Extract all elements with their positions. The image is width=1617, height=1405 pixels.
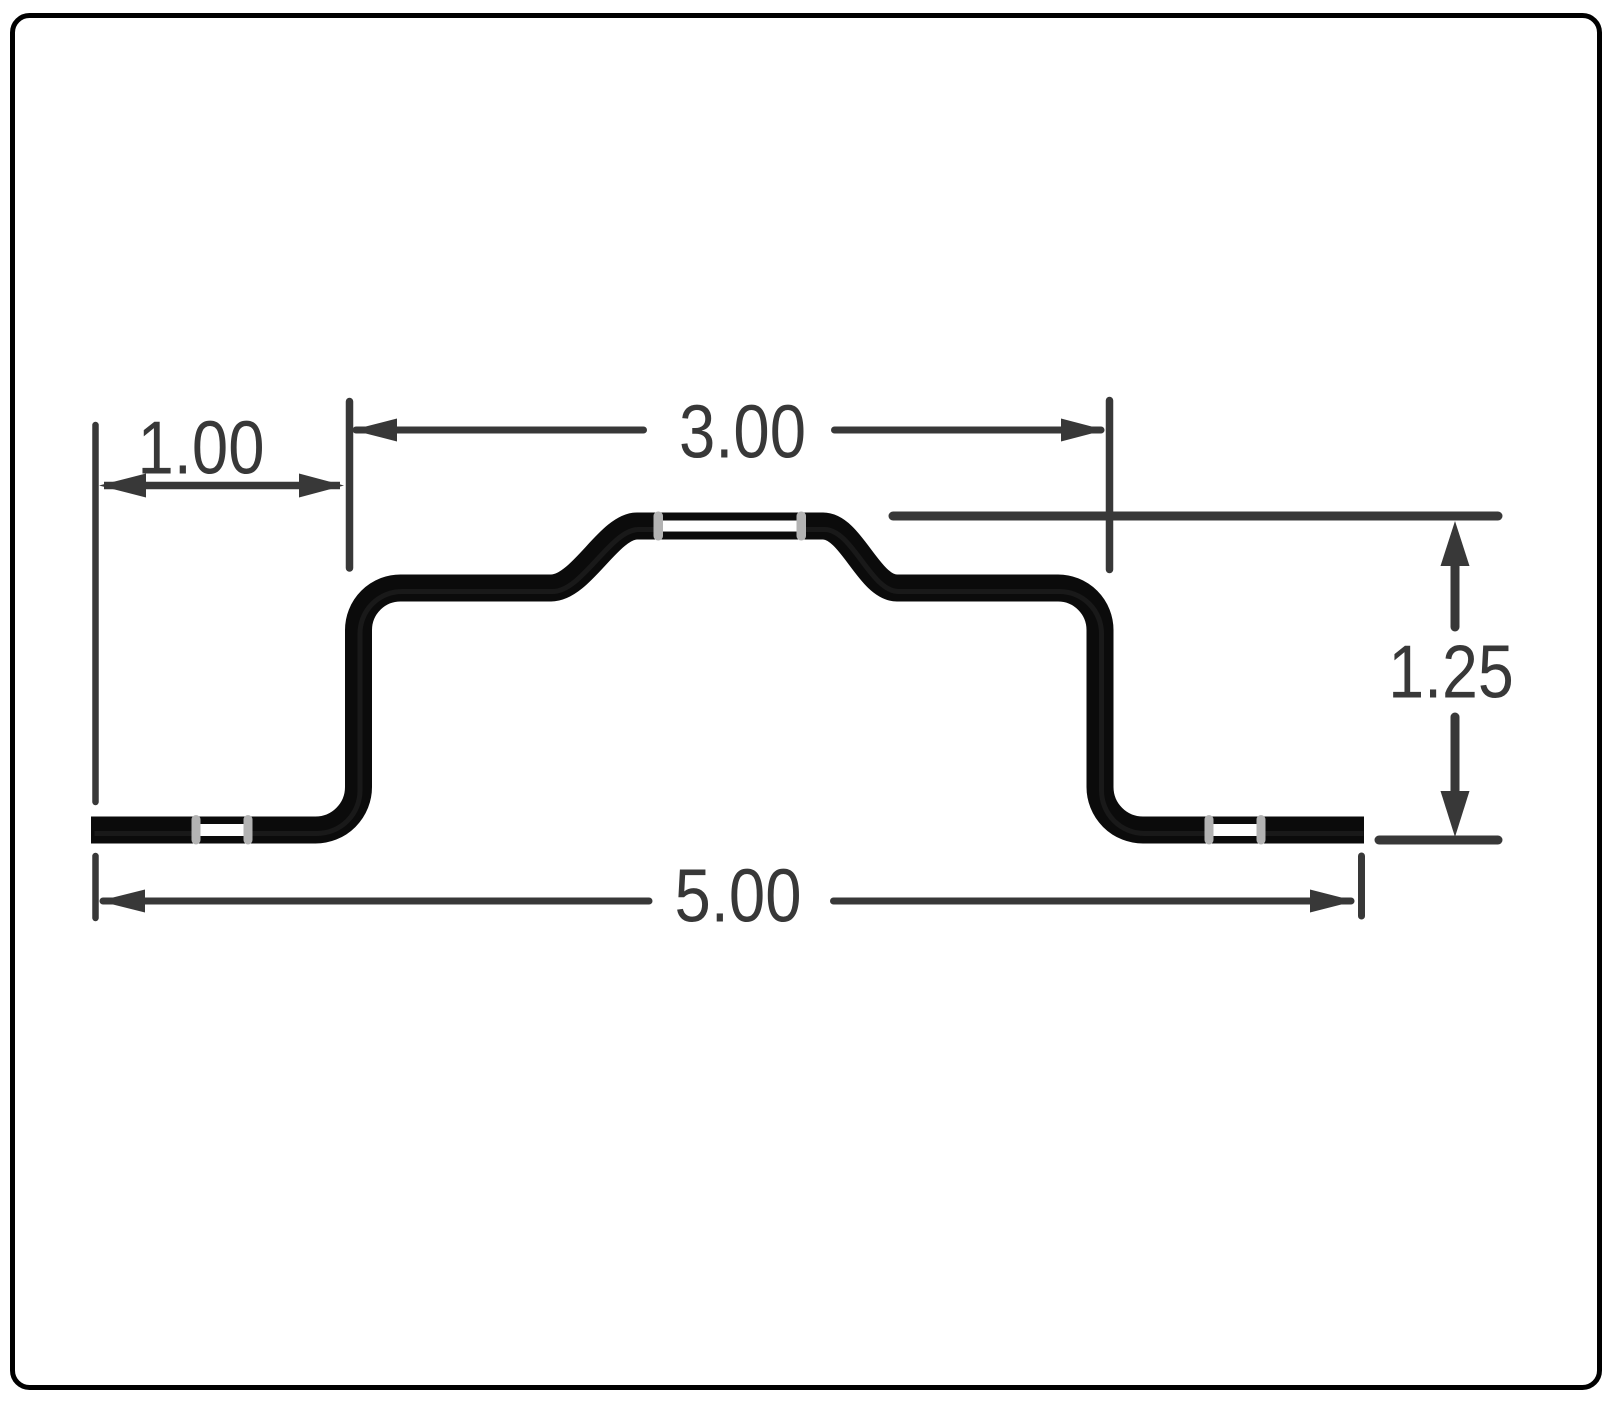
- svg-text:1.25: 1.25: [1388, 630, 1514, 714]
- svg-text:5.00: 5.00: [675, 853, 802, 937]
- svg-text:3.00: 3.00: [679, 389, 806, 473]
- svg-text:1.00: 1.00: [138, 405, 265, 489]
